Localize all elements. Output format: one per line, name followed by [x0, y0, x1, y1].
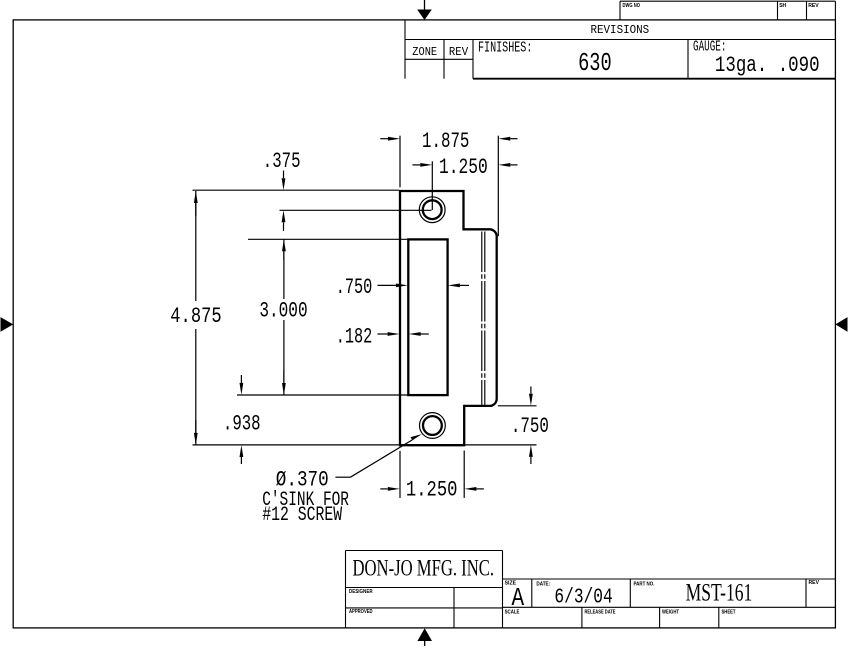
bottom centering mark	[417, 628, 432, 646]
svg-text:REV: REV	[449, 45, 469, 59]
partno-rev divider	[805, 579, 807, 607]
donjo box top	[346, 550, 503, 552]
ext plate bottom right	[465, 444, 537, 446]
bend line left	[481, 232, 483, 406]
svg-text:WEIGHT: WEIGHT	[662, 609, 680, 615]
zone-rev divider	[443, 40, 445, 79]
release-weight divider	[659, 607, 661, 628]
svg-text:FINISHES:: FINISHES:	[478, 41, 532, 57]
leader to countersink hole	[335, 434, 421, 477]
title block left	[345, 551, 347, 628]
ext plate left vertical	[399, 136, 401, 188]
dim .938	[240, 375, 244, 395]
strip right line	[834, 1, 836, 20]
svg-text:DATE:: DATE:	[536, 581, 550, 587]
svg-text:.182: .182	[336, 324, 373, 349]
dim 4.875	[195, 191, 197, 301]
designer approved divider	[346, 607, 503, 609]
left centering mark	[1, 317, 14, 332]
svg-text:MST-161: MST-161	[686, 580, 753, 607]
bend line right	[484, 232, 486, 406]
ext lip bottom right	[498, 405, 537, 407]
rev-finishes divider	[472, 40, 474, 79]
svg-text:.750: .750	[336, 275, 373, 300]
revisions header bottom	[405, 39, 835, 41]
size row bottom	[503, 606, 836, 608]
svg-text:1.250: 1.250	[439, 155, 488, 180]
svg-text:DWG NO: DWG NO	[623, 3, 641, 9]
svg-text:1.875: 1.875	[422, 129, 469, 154]
ext cutout top	[248, 238, 407, 240]
svg-text:REVISIONS: REVISIONS	[591, 24, 650, 37]
svg-text:DON-JO MFG. INC.: DON-JO MFG. INC.	[353, 556, 495, 581]
date-partno divider	[629, 579, 631, 607]
ext hole center vertical	[431, 161, 433, 210]
ext plate right vertical	[497, 136, 499, 237]
designer col divider	[453, 588, 455, 628]
svg-text:SH: SH	[779, 3, 786, 9]
top screw hole	[419, 197, 445, 223]
dim .750 right	[529, 387, 533, 406]
svg-text:REV: REV	[808, 3, 819, 9]
ext bottom-step vertical	[463, 451, 465, 498]
dim .375	[282, 171, 286, 191]
dwg-no strip top line	[620, 0, 835, 2]
rev divider	[806, 1, 808, 20]
scale-release divider	[581, 607, 583, 628]
svg-text:6/3/04: 6/3/04	[554, 587, 612, 610]
ext bottom-left vertical	[399, 451, 401, 498]
svg-text:.750: .750	[511, 414, 549, 439]
bottom screw hole	[420, 413, 446, 439]
svg-text:.938: .938	[223, 412, 261, 437]
svg-text:13ga. .090: 13ga. .090	[715, 53, 820, 78]
dim .182	[378, 332, 400, 336]
sh divider	[777, 1, 779, 20]
title block mid vertical	[502, 551, 504, 628]
svg-text:REV: REV	[809, 580, 820, 586]
strike plate outline	[400, 191, 497, 445]
dwg-no strip left line	[619, 1, 621, 20]
svg-text:3.000: 3.000	[259, 299, 307, 324]
latch cutout	[408, 239, 447, 395]
svg-text:ZONE: ZONE	[412, 45, 437, 59]
donjo box bottom	[346, 587, 503, 589]
svg-text:#12 SCREW: #12 SCREW	[262, 504, 342, 527]
svg-text:1.250: 1.250	[406, 478, 458, 503]
svg-text:.375: .375	[263, 149, 301, 174]
ext plate bottom left	[193, 444, 399, 446]
dim 3.000	[283, 239, 285, 299]
right centering mark	[835, 317, 847, 332]
top centering mark	[417, 0, 432, 20]
dim 1.250 top	[412, 163, 432, 167]
dim 1.250 bottom	[380, 487, 400, 491]
zone/rev header bottom	[405, 58, 473, 60]
ext top hole center	[280, 209, 432, 211]
dim .750 cutout width	[378, 284, 408, 288]
finishes-gauge divider	[687, 40, 689, 79]
dim 1.875	[380, 137, 400, 141]
revisions block left	[404, 20, 406, 79]
svg-text:A: A	[512, 583, 525, 613]
ext cutout bottom	[237, 394, 407, 396]
size-date divider	[531, 579, 533, 607]
size row top	[503, 578, 836, 580]
svg-text:4.875: 4.875	[170, 304, 221, 329]
svg-text:PART NO.: PART NO.	[634, 581, 655, 587]
ext plate top	[193, 189, 399, 191]
svg-text:DESIGNER: DESIGNER	[349, 589, 373, 595]
svg-text:APPROVED: APPROVED	[349, 609, 373, 615]
weight-sheet divider	[718, 607, 720, 628]
finishes gauge bottom	[473, 78, 835, 80]
svg-text:630: 630	[578, 48, 612, 78]
svg-text:RELEASE DATE: RELEASE DATE	[585, 609, 616, 615]
svg-text:SHEET: SHEET	[722, 609, 737, 615]
